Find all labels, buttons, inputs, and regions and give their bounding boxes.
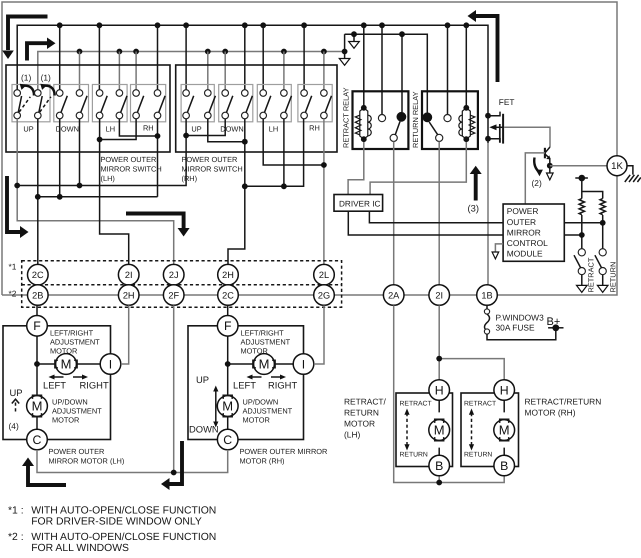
- retract/return motor (RH) box: [461, 393, 519, 467]
- svg-text:WITH AUTO-OPEN/CLOSE FUNCTION: WITH AUTO-OPEN/CLOSE FUNCTION: [31, 505, 216, 516]
- svg-text:M: M: [222, 399, 233, 414]
- svg-text:2A: 2A: [388, 290, 400, 300]
- node 2H (row2 col2): [118, 285, 139, 306]
- node H (RH retract motor): [494, 380, 515, 401]
- arrow thick top-left (flow down): [8, 17, 48, 51]
- switch RH-select pole blades (RH box): [305, 96, 331, 113]
- power outer mirror motor (RH) box: [188, 326, 304, 440]
- retract relay common contact: [390, 134, 397, 141]
- return relay box: [422, 91, 478, 149]
- svg-text:UP: UP: [196, 374, 209, 385]
- node 2F (row2 col3): [163, 285, 184, 306]
- wire branches bus A down to relay contacts: [364, 25, 467, 115]
- svg-text:(1): (1): [41, 73, 51, 83]
- svg-text:C: C: [223, 433, 232, 447]
- wire collector rail y196 (UP-right / DOWN-left to RH-right column): [38, 119, 158, 197]
- switch UP pole1: closed blade, dashed alternate, actuate arrow: [18, 84, 34, 113]
- svg-text:FET: FET: [499, 97, 515, 107]
- junction dot RH motor node: [225, 361, 231, 367]
- svg-text:M: M: [259, 357, 270, 372]
- ground: [625, 175, 641, 182]
- svg-text:RETURN: RETURN: [400, 452, 428, 459]
- arrow thick left-middle (flow right): [7, 176, 20, 232]
- svg-text:MIRROR SWITCH: MIRROR SWITCH: [101, 165, 162, 174]
- wire line2 linking bus B to relay coil contacts: [345, 34, 428, 112]
- switch LH-select pole blades (RH box): [265, 96, 292, 113]
- wire retract coil bottom to DRIVER IC: [348, 142, 364, 195]
- svg-text:1B: 1B: [481, 290, 492, 300]
- wire module right line1 to return sense node: [564, 222, 602, 224]
- switch LH-select sub-box (RH): [257, 85, 291, 122]
- wire 1K to ground: [627, 166, 633, 175]
- svg-text:RETRACT/RETURN: RETRACT/RETURN: [525, 397, 602, 407]
- motor M up/down adjustment (RH): [217, 395, 238, 417]
- switch contacts LH box (top and bottom terminals): [14, 90, 161, 119]
- FET gate arrow: [489, 124, 496, 130]
- power outer mirror switch (RH) outer box: [176, 65, 337, 152]
- node C (LH motor): [27, 429, 48, 450]
- svg-text:OUTER: OUTER: [507, 217, 536, 227]
- battery B+ terminal: [548, 327, 563, 329]
- node 2C (row2 col4): [218, 285, 239, 306]
- junction dots on bus A: [57, 22, 469, 28]
- node 1B: [477, 285, 498, 306]
- svg-text:CONTROL: CONTROL: [507, 238, 548, 248]
- node B (LH retract motor): [429, 455, 450, 476]
- node C (RH motor): [217, 429, 238, 450]
- motor M up/down adjustment (LH): [27, 395, 48, 417]
- svg-text:POWER OUTER: POWER OUTER: [101, 155, 157, 164]
- motor M retract (RH): [494, 419, 515, 441]
- svg-text:B: B: [500, 459, 508, 473]
- junction dots below RH switch box: [183, 133, 327, 190]
- arrow thick top-right (flow left): [476, 16, 498, 82]
- svg-text:(LH): (LH): [344, 430, 360, 440]
- svg-text:MOTOR: MOTOR: [52, 416, 79, 425]
- svg-text:UP/DOWN: UP/DOWN: [52, 398, 88, 407]
- return relay contact: energized side (solid): [422, 112, 432, 122]
- svg-text:ADJUSTMENT: ADJUSTMENT: [52, 407, 102, 416]
- svg-text:POWER: POWER: [507, 206, 539, 216]
- svg-text:RETRACT: RETRACT: [587, 257, 596, 292]
- switch RH-select sub-box (RH): [298, 85, 332, 122]
- junction dots retract coil: [361, 105, 367, 142]
- switch RETRACT (position sense): [574, 249, 587, 293]
- svg-text:1K: 1K: [611, 161, 623, 172]
- wire I (LH) to connector 2H: [121, 305, 129, 364]
- svg-text:2F: 2F: [168, 290, 179, 300]
- svg-text:2H: 2H: [222, 270, 234, 280]
- return relay contact: stationary (open side): [444, 115, 451, 122]
- svg-text:ADJUSTMENT: ADJUSTMENT: [243, 407, 293, 416]
- wire RH-right bottom down through node to y196 rail: [157, 119, 159, 197]
- arrow thick bottom-middle (flow left): [170, 441, 183, 484]
- svg-text:RETURN: RETURN: [464, 452, 492, 459]
- retract relay contact: stationary (open side): [378, 115, 385, 122]
- svg-text:M: M: [434, 423, 445, 438]
- switch DOWN sub-box: [54, 85, 89, 122]
- switch UP pole2: closed blade, dashed alternate, actuate arrow: [39, 84, 55, 113]
- wire RH box UP-right to DOWN-right bottom contacts: [208, 119, 245, 142]
- switch RH-select pole blades: [137, 96, 165, 113]
- node I (LH motor): [100, 354, 121, 375]
- svg-text:MOTOR: MOTOR: [243, 416, 270, 425]
- wire return coil bottom to DRIVER IC: [370, 142, 466, 195]
- svg-text:RH: RH: [143, 124, 154, 133]
- svg-text:ADJUSTMENT: ADJUSTMENT: [50, 338, 100, 347]
- wire resistor bottoms to switches: [582, 215, 603, 249]
- wire LH-left column down, step right to connector 2I: [100, 140, 129, 265]
- wire retract relay common down to connector 2A: [393, 142, 395, 285]
- svg-text:FOR DRIVER-SIDE WINDOW ONLY: FOR DRIVER-SIDE WINDOW ONLY: [31, 516, 202, 527]
- svg-text:RETURN: RETURN: [609, 262, 618, 293]
- svg-text:UP: UP: [10, 387, 23, 398]
- retract/return motor (LH) box: [396, 393, 453, 467]
- wire LH-right to RH-right bottom contacts (LH box): [119, 119, 157, 136]
- wire module right line2 to retract sense node: [564, 234, 582, 236]
- wire branches bus B to switch top contacts (gray): [80, 52, 324, 91]
- svg-text:(LH): (LH): [101, 174, 115, 183]
- svg-text:POWER OUTER MIRROR: POWER OUTER MIRROR: [240, 447, 328, 456]
- node 2L (row1 col5): [314, 264, 335, 285]
- power outer mirror control module box: [503, 204, 564, 261]
- switch LH-select pole blades: [101, 96, 127, 113]
- junction dot B feed: [436, 480, 442, 486]
- switch UP pole blades (RH box): [187, 96, 215, 113]
- resistor R (retract sense): [579, 199, 584, 215]
- node 2J (row1 col3): [163, 264, 184, 285]
- svg-text:*2: *2: [9, 289, 17, 299]
- driver IC box: [334, 195, 383, 212]
- wire return relay common down to connector 2I: [438, 142, 440, 285]
- node F (RH motor): [217, 316, 238, 337]
- svg-text:2B: 2B: [32, 290, 43, 300]
- svg-text:30A FUSE: 30A FUSE: [496, 323, 536, 333]
- wire RH-right column down to connector 2L: [323, 119, 325, 265]
- arrow thick (flow right, upper-left): [27, 43, 47, 60]
- svg-text:RETRACT: RETRACT: [464, 401, 496, 408]
- relay coil (return): inductor + resistor in parallel: [459, 108, 475, 139]
- B+ style terminal bar feeding sense resistors: [575, 177, 588, 179]
- wire RH box rail y186 (DOWN-right / LH-right / RH-left): [245, 119, 304, 187]
- svg-text:UP: UP: [191, 125, 201, 134]
- svg-text:2I: 2I: [435, 290, 443, 300]
- node 2A: [383, 285, 404, 306]
- svg-text:(1): (1): [21, 73, 31, 83]
- switch UP sub-box (RH): [181, 85, 214, 122]
- fuse P.WINDOW3 30A below 1B: [484, 309, 489, 314]
- svg-text:2L: 2L: [319, 270, 329, 280]
- relay coil (retract): resistor + inductor in parallel: [355, 108, 371, 139]
- junction dot LH motor node: [34, 361, 40, 367]
- svg-text:DOWN: DOWN: [220, 125, 243, 134]
- node F (LH motor): [27, 316, 48, 337]
- svg-text:UP: UP: [23, 125, 33, 134]
- svg-text:2H: 2H: [123, 290, 135, 300]
- svg-text:(4): (4): [9, 421, 19, 431]
- connector arrow below transistor emitter: [547, 173, 554, 180]
- node 2I (single): [429, 285, 450, 306]
- wire fuse to B+: [487, 328, 556, 340]
- svg-text:H: H: [435, 383, 444, 397]
- arrows LEFT / RIGHT (RH): [250, 376, 284, 378]
- connector arrow (off-page) below bus B end: [339, 59, 350, 66]
- svg-text:MIRROR: MIRROR: [507, 227, 541, 237]
- wire 2C to F and adjustment motors (RH): [228, 305, 294, 429]
- switch DOWN pole blades: [61, 96, 87, 113]
- svg-text:RH: RH: [309, 124, 320, 133]
- junction dots at sense lines: [579, 220, 606, 238]
- motor M left/right adjustment (LH): [55, 354, 77, 375]
- wire driver IC output1 to module: [369, 211, 503, 223]
- wire 2A down along bottom to B terminals: [394, 305, 505, 482]
- node 2I (row1 col2): [118, 264, 139, 285]
- svg-text:RETURN RELAY: RETURN RELAY: [411, 91, 420, 148]
- svg-text:RETRACT RELAY: RETRACT RELAY: [342, 87, 351, 148]
- wire RH box LH-left bottom across to RH-right column: [263, 119, 324, 165]
- wire DOWN-right column step left down to connector 2H: [228, 186, 245, 264]
- svg-text:POWER OUTER: POWER OUTER: [182, 155, 238, 164]
- junction dots return coil: [463, 105, 469, 142]
- retract relay blade: [395, 122, 400, 135]
- svg-text:(2): (2): [532, 178, 542, 188]
- svg-text:C: C: [33, 433, 42, 447]
- connector arrow below module stub: [492, 252, 499, 259]
- wire branches bus A to switch top contacts (black): [60, 25, 304, 90]
- junction dots FET drain/source taps: [485, 113, 491, 142]
- wire bus B (second rail): [38, 52, 345, 91]
- switch contacts RH box (top and bottom terminals): [183, 90, 327, 119]
- retract relay box: [353, 91, 409, 149]
- svg-text:DOWN: DOWN: [189, 424, 219, 435]
- switch LH-select sub-box: [92, 85, 127, 122]
- arrow (3) thick up: [474, 173, 478, 201]
- wires H-M-B inside RH retract box: [503, 400, 505, 455]
- wire transistor base to module top: [525, 153, 545, 204]
- svg-text:WITH AUTO-OPEN/CLOSE FUNCTION: WITH AUTO-OPEN/CLOSE FUNCTION: [31, 532, 216, 543]
- motor M retract (LH): [429, 419, 450, 441]
- wire UP-left bottom down then across to connector 2J: [17, 119, 174, 265]
- transistor Q (2) driver: [545, 147, 550, 173]
- svg-text:DRIVER IC: DRIVER IC: [339, 200, 380, 209]
- svg-text:POWER OUTER: POWER OUTER: [49, 447, 105, 456]
- svg-text:I: I: [109, 357, 112, 371]
- arrows LEFT / RIGHT: [52, 376, 86, 378]
- transistor FET (power MOSFET): [488, 112, 503, 144]
- svg-text:MODULE: MODULE: [507, 249, 543, 259]
- svg-text:ADJUSTMENT: ADJUSTMENT: [241, 338, 291, 347]
- svg-text:LEFT: LEFT: [233, 380, 256, 391]
- wire stub to connector arrow on line2: [353, 34, 355, 41]
- svg-text:RIGHT: RIGHT: [268, 380, 297, 391]
- svg-text:P.WINDOW3: P.WINDOW3: [496, 313, 545, 323]
- svg-text:B+: B+: [547, 316, 561, 328]
- svg-text:F: F: [224, 319, 232, 333]
- svg-text:(RH): (RH): [182, 174, 198, 183]
- svg-text:I: I: [302, 357, 305, 371]
- relay 1K circle: [607, 156, 627, 176]
- svg-text:2C: 2C: [222, 290, 234, 300]
- retract relay contact: energized side (solid): [397, 112, 407, 122]
- svg-text:M: M: [32, 399, 43, 414]
- svg-text:LH: LH: [106, 125, 115, 134]
- switch UP (LH switch, double) sub-box: [12, 85, 50, 122]
- switch DOWN sub-box (RH): [219, 85, 253, 122]
- svg-text:H: H: [500, 383, 509, 397]
- resistor R (return sense): [600, 199, 605, 215]
- svg-text:*1 :: *1 :: [8, 505, 24, 516]
- switch DOWN pole blades (RH box): [227, 96, 253, 113]
- svg-text:M: M: [61, 357, 72, 372]
- switch RH-select sub-box: [131, 85, 166, 122]
- svg-text:UP/DOWN: UP/DOWN: [243, 398, 279, 407]
- svg-text:*2 :: *2 :: [8, 532, 24, 543]
- svg-text:*1: *1: [9, 262, 17, 272]
- wire FET to transistor base: [504, 127, 550, 147]
- wire LH-left to RH-left bottom contacts (LH box): [100, 119, 137, 140]
- junction dots below LH switch box: [14, 133, 160, 200]
- power outer mirror motor (LH) box: [3, 326, 111, 440]
- junction dots on line2: [351, 31, 405, 37]
- svg-text:MIRROR SWITCH: MIRROR SWITCH: [182, 165, 243, 174]
- svg-text:2G: 2G: [318, 290, 330, 300]
- wires H-M-B inside LH retract box: [438, 400, 440, 455]
- wire main battery loop (top frame, left edge, right edge to relay 1K, bottom feed bus): [2, 2, 617, 295]
- svg-text:MIRROR MOTOR (LH): MIRROR MOTOR (LH): [49, 457, 125, 466]
- svg-text:MOTOR (RH): MOTOR (RH): [240, 457, 285, 466]
- wire I (RH) to connector 2G: [314, 305, 324, 364]
- svg-text:RIGHT: RIGHT: [80, 380, 109, 391]
- double arrow retract/return (RH box): [471, 413, 473, 446]
- svg-text:MOTOR: MOTOR: [344, 419, 375, 429]
- node I (RH motor): [293, 354, 314, 375]
- connector arrow (off-page) below line2: [349, 42, 360, 49]
- svg-text:LEFT: LEFT: [43, 380, 66, 391]
- wire C (LH) and C (RH) joined, fed from 2F: [37, 305, 228, 472]
- wire bus A branch into retract relay stationary contact: [381, 114, 383, 117]
- wire emitter line to relay 1K: [550, 165, 607, 167]
- return relay common contact: [436, 134, 443, 141]
- svg-text:LEFT/RIGHT: LEFT/RIGHT: [50, 329, 94, 338]
- return relay blade: [429, 122, 437, 135]
- wire bus B end stub to connector arrow: [344, 34, 346, 58]
- svg-text:MOTOR (RH): MOTOR (RH): [525, 408, 576, 418]
- wire collector rail y185 (UP-left / DOWN-right to RH box UP-left): [17, 119, 186, 186]
- motor M left/right adjustment (RH): [253, 354, 275, 375]
- svg-text:LEFT/RIGHT: LEFT/RIGHT: [241, 329, 285, 338]
- node 2H (row1 col4): [218, 264, 239, 285]
- svg-text:M: M: [499, 423, 510, 438]
- wire 2B to F and adjustment motors (LH): [37, 305, 100, 429]
- svg-text:B: B: [435, 459, 443, 473]
- svg-text:LH: LH: [269, 125, 278, 134]
- switch RETURN (position sense): [595, 249, 608, 293]
- wire terminal to resistor pair split: [582, 178, 603, 199]
- svg-text:2C: 2C: [32, 270, 44, 280]
- svg-text:(3): (3): [468, 203, 479, 214]
- svg-text:F: F: [33, 319, 41, 333]
- transistor emitter arrowhead: [546, 155, 550, 159]
- node B (RH retract motor): [494, 455, 515, 476]
- node 2G (row2 col5): [314, 285, 335, 306]
- arrow thick middle (flow down): [126, 214, 184, 229]
- svg-text:FOR ALL WINDOWS: FOR ALL WINDOWS: [31, 543, 129, 554]
- svg-text:2J: 2J: [169, 270, 179, 280]
- node H (LH retract motor): [429, 380, 450, 401]
- junction dot 2F feed: [171, 470, 177, 476]
- junction dot emitter to 1K line: [547, 163, 553, 169]
- arrow thick bottom-left (flow up): [28, 465, 66, 485]
- junction dot H feed split: [436, 356, 442, 362]
- node 2B (row2 col1): [28, 285, 49, 306]
- wire UP-right bottom down to connector 2C: [37, 119, 39, 265]
- double arrow retract/return (LH box): [406, 413, 408, 446]
- junction dots on bus B: [77, 49, 348, 55]
- svg-text:2I: 2I: [125, 270, 133, 280]
- power outer mirror switch (LH) outer box: [6, 65, 170, 152]
- node 2C (row1 col1): [28, 264, 49, 285]
- svg-text:RETURN: RETURN: [344, 408, 379, 418]
- curved arrow (2) actuation: [534, 158, 539, 173]
- wire RH box UP-left to DOWN-left bottom contacts: [186, 119, 225, 136]
- wire driver IC output2 to module: [348, 211, 503, 235]
- wire module left stub to connector arrow: [495, 244, 503, 252]
- connector block dashed outline: [22, 261, 342, 308]
- svg-text:RETRACT: RETRACT: [400, 401, 432, 408]
- svg-text:RETRACT/: RETRACT/: [344, 397, 387, 407]
- wire 2I down and split to retract motor H terminals: [439, 305, 504, 379]
- wire bus A (upper supply rail to switch contacts and relays): [17, 25, 488, 143]
